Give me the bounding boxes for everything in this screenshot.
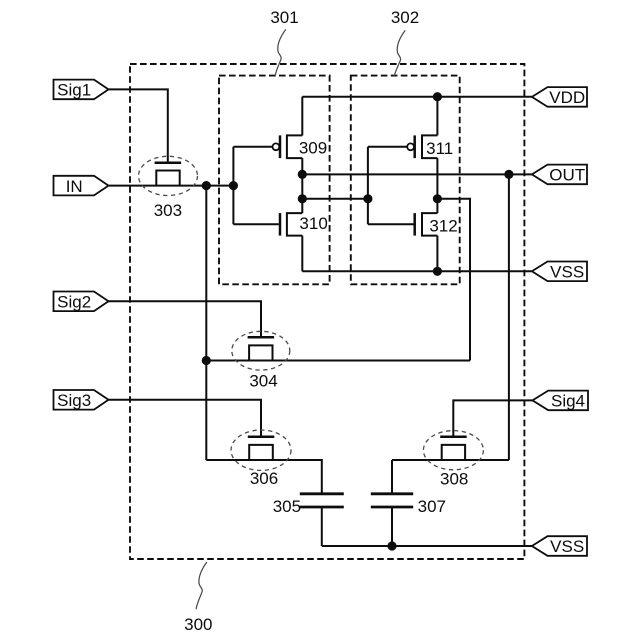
svg-text:Sig3: Sig3 (57, 391, 91, 410)
wire inverter1 output to inverter2 input (302, 198, 368, 200)
flag OUT (532, 165, 587, 185)
leader squiggle 300 (196, 562, 207, 609)
wire VDD rail (302, 96, 532, 98)
wire Sig3 to gate of 306 (109, 400, 262, 437)
wire gate lead of 312 (368, 223, 414, 225)
transistor P-channel 309 (273, 135, 303, 158)
svg-text:312: 312 (429, 217, 457, 236)
wire VSS bottom rail (322, 545, 532, 547)
svg-text:309: 309 (299, 139, 327, 158)
capacitor 305 (300, 494, 344, 507)
svg-text:IN: IN (66, 177, 83, 196)
svg-text:306: 306 (250, 469, 278, 488)
svg-text:305: 305 (273, 497, 301, 516)
leader squiggle 302 (394, 30, 405, 75)
svg-text:310: 310 (299, 214, 327, 233)
transistor 306 (231, 430, 291, 470)
wire inverter1 trunk upper (VDD to 309 source) (301, 97, 303, 136)
wire inverter1 trunk lower (310 source to VSS) (301, 236, 303, 272)
node dot VSS inverter2 (433, 267, 442, 276)
svg-text:Sig1: Sig1 (57, 81, 91, 100)
wire inverter2 trunk upper (VDD to 311 source) (436, 97, 438, 136)
svg-text:300: 300 (184, 615, 212, 634)
flag Sig2 (54, 292, 109, 312)
svg-text:Sig4: Sig4 (551, 392, 585, 411)
wire capacitor 307 top lead (391, 460, 393, 494)
svg-text:VSS: VSS (550, 537, 584, 556)
wire gate lead of 310 (233, 223, 278, 225)
wire inverter1 trunk middle (309 drain to 310 drain) (301, 158, 303, 213)
wire 304 row from node to jog (206, 360, 470, 362)
wire VSS upper rail (302, 270, 532, 272)
flag Sig3 (54, 390, 109, 410)
node dot IN-303 junction (202, 181, 211, 190)
capacitor 307 (371, 494, 413, 507)
node dot inverter1 output OUT (298, 170, 307, 179)
svg-text:302: 302 (391, 8, 419, 27)
node dot inverter2 input (363, 194, 372, 203)
wire gate lead of 311 (368, 146, 407, 148)
wire OUT rail (302, 173, 532, 175)
node dot inverter1 input (229, 181, 238, 190)
svg-text:308: 308 (440, 470, 468, 489)
wire 308 row (392, 459, 509, 461)
wire OUT drop to 308 (508, 174, 510, 460)
transistor P-channel 311 (407, 135, 437, 158)
wire IN line to inverter input (109, 185, 233, 187)
transistor N-channel 312 (415, 213, 438, 236)
wire node vertical from IN node down to 306 row (205, 186, 207, 460)
node dot inverter1 output lower (298, 194, 307, 203)
node dot 304 row junction (202, 356, 211, 365)
node dot VDD inverter2 (433, 92, 442, 101)
transistor N-channel 310 (280, 213, 302, 236)
flag Sig4 (533, 391, 589, 411)
wire inverter1 input vertical (232, 147, 234, 224)
svg-text:303: 303 (154, 201, 182, 220)
dashed box 301 (219, 76, 330, 285)
wire jog from inverter 302 output down to 304 row (437, 199, 470, 361)
dashed box 302 (351, 76, 460, 285)
transistor 308 (423, 431, 483, 470)
svg-text:OUT: OUT (549, 166, 585, 185)
transistor 304 (232, 331, 290, 370)
svg-text:311: 311 (426, 139, 453, 158)
svg-text:VDD: VDD (549, 88, 585, 107)
flag IN (54, 176, 109, 196)
svg-text:307: 307 (418, 497, 446, 516)
node dot inverter2 output (433, 194, 442, 203)
flag Sig1 (54, 80, 109, 100)
wire gate lead of 309 (233, 146, 272, 148)
svg-text:Sig2: Sig2 (57, 293, 91, 312)
flag VSS lower (532, 536, 587, 556)
wire inverter2 trunk middle (311 drain to 312 drain) (436, 158, 438, 213)
svg-text:VSS: VSS (550, 263, 584, 282)
node dot OUT junction (504, 170, 513, 179)
flag VSS upper (532, 262, 587, 282)
svg-text:304: 304 (249, 372, 277, 391)
wire Sig4 to gate of 308 (453, 400, 532, 437)
wire inverter2 trunk lower (312 source to VSS) (436, 236, 438, 272)
transistor 303 (139, 156, 198, 195)
wire Sig2 to gate of 304 (108, 301, 262, 337)
wire capacitor 305 bottom to VSS rail (321, 507, 323, 546)
leader squiggle 301 (275, 29, 286, 76)
wire 306 row to capacitor 305 (206, 460, 321, 494)
wire inverter2 input vertical (367, 147, 369, 224)
svg-text:301: 301 (270, 8, 298, 27)
wire Sig1 to gate of 303 (109, 89, 168, 163)
dashed box 300 (130, 64, 524, 559)
node dot VSS bottom junction (387, 541, 396, 550)
flag VDD (532, 87, 587, 107)
wire capacitor 307 bottom to VSS rail (391, 507, 393, 546)
